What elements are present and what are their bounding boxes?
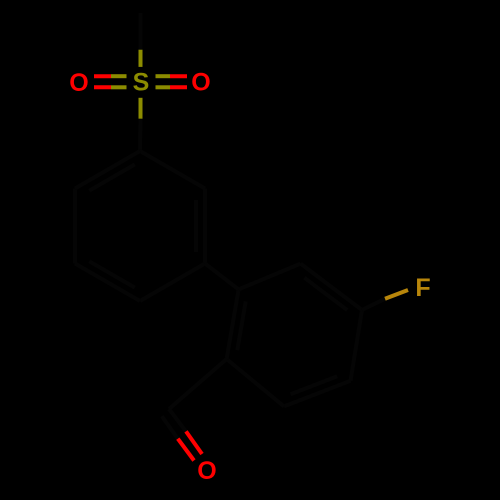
svg-text:O: O <box>191 69 210 97</box>
svg-text:O: O <box>69 69 88 97</box>
svg-text:O: O <box>197 457 216 485</box>
svg-text:F: F <box>415 274 430 302</box>
svg-text:S: S <box>133 69 150 97</box>
